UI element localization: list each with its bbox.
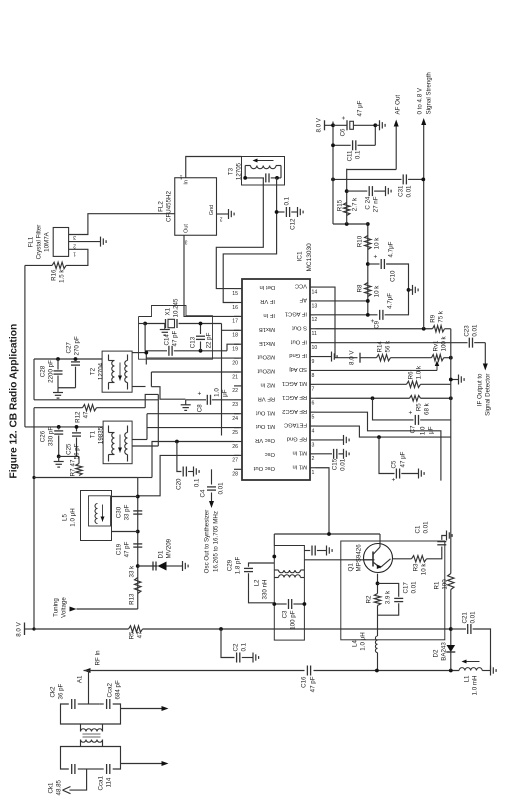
svg-text:M2Out: M2Out xyxy=(257,353,275,359)
pin 13 AF xyxy=(310,299,316,301)
transistor Q1 MPS9426 xyxy=(363,543,392,572)
ground C12 xyxy=(296,207,298,217)
resistor R5 in rail xyxy=(128,625,142,631)
pin 6 RF AGC1 xyxy=(310,397,316,399)
svg-text:33 pF: 33 pF xyxy=(123,504,130,520)
node C13 right xyxy=(198,321,202,325)
svg-text:Signal Detector: Signal Detector xyxy=(484,373,491,415)
capacitor C17 0.01 xyxy=(377,603,398,615)
wire T3 to pin15 xyxy=(216,177,263,288)
wire pin26 net xyxy=(152,441,234,477)
wire Q1 emitter to R3 xyxy=(393,557,412,559)
svg-text:C7: C7 xyxy=(409,424,416,432)
svg-text:10 k: 10 k xyxy=(373,284,380,297)
capacitor C5 47 uF xyxy=(395,468,397,478)
capacitor C27 270 pF line xyxy=(58,386,76,388)
wire rail B right leg down to C28 node xyxy=(34,358,102,360)
svg-text:8.0 V: 8.0 V xyxy=(348,349,355,364)
svg-text:M2Out: M2Out xyxy=(257,367,275,373)
wire osc out line xyxy=(210,469,212,484)
wire pin10 to C23 xyxy=(315,341,467,343)
terminal antenna xyxy=(69,769,86,790)
svg-text:R14: R14 xyxy=(376,340,383,352)
capacitor Cca2 684 pF xyxy=(105,699,107,709)
T1 windings xyxy=(111,432,114,454)
node pin26/C20 xyxy=(175,439,179,443)
wire rail B left leg down x=401.7 xyxy=(34,398,158,400)
pin 19 Mix1E xyxy=(234,343,242,345)
svg-text:C16: C16 xyxy=(300,675,307,687)
svg-text:L4: L4 xyxy=(351,639,358,646)
node C7 rail xyxy=(448,396,452,400)
transformer T3 12705 box xyxy=(241,156,284,185)
node pin12 ladder xyxy=(365,312,369,316)
svg-text:D2: D2 xyxy=(432,648,439,656)
capacitor C11 0.1 xyxy=(333,144,351,146)
svg-text:16.265 to 16.705 MHz: 16.265 to 16.705 MHz xyxy=(212,511,219,572)
svg-text:4.7μF: 4.7μF xyxy=(386,292,393,308)
svg-text:D1: D1 xyxy=(157,550,164,558)
svg-text:M1 In: M1 In xyxy=(292,463,307,469)
svg-text:In: In xyxy=(183,180,189,185)
resistor R10 10 k xyxy=(364,235,370,249)
svg-text:AF Out: AF Out xyxy=(394,94,401,114)
svg-text:47 pF: 47 pF xyxy=(123,541,130,557)
ground C28 xyxy=(57,387,59,392)
capacitor C25 56 pF line xyxy=(58,455,78,457)
arrow IF output to signal detector xyxy=(484,342,486,365)
svg-text:L2: L2 xyxy=(253,578,260,585)
svg-text:C3: C3 xyxy=(281,609,288,617)
node ladder right xyxy=(365,222,369,226)
node RV1 rail xyxy=(448,355,452,359)
pin 20 M2Out xyxy=(234,357,242,359)
capacitor C1 0.01 xyxy=(437,543,446,545)
svg-text:27: 27 xyxy=(232,457,238,463)
svg-text:AF: AF xyxy=(299,296,307,302)
capacitor C10 4.7 uF xyxy=(367,263,379,265)
svg-text:27 nF: 27 nF xyxy=(372,196,379,212)
capacitor C28 2200 pF line xyxy=(56,357,60,361)
svg-text:16: 16 xyxy=(232,304,238,310)
capacitor C15 0.01 at pin2 xyxy=(315,452,332,454)
svg-text:4: 4 xyxy=(311,428,314,434)
ground bias rail xyxy=(450,378,458,380)
wire pin1 to oscillator tank xyxy=(315,467,329,533)
pin 22 M2 In xyxy=(234,384,242,386)
resistor R7 47 xyxy=(75,463,81,475)
svg-text:M1 In: M1 In xyxy=(292,449,307,455)
svg-text:48.85: 48.85 xyxy=(55,779,62,795)
ground pin3 xyxy=(315,438,343,440)
svg-text:R3: R3 xyxy=(412,562,419,570)
svg-text:μF: μF xyxy=(427,426,434,434)
svg-text:1.0 μH: 1.0 μH xyxy=(69,508,76,526)
pin 27 Osc xyxy=(234,454,242,456)
svg-text:3: 3 xyxy=(311,442,314,448)
svg-text:IF In: IF In xyxy=(263,312,275,318)
svg-text:T1: T1 xyxy=(89,430,96,438)
potentiometer RV1 100 k xyxy=(390,356,431,358)
resistor R6 1.0 k at pin7 xyxy=(315,383,406,385)
svg-text:C8: C8 xyxy=(196,403,203,411)
svg-text:22: 22 xyxy=(232,388,238,394)
resistor R3 10 k xyxy=(411,555,426,561)
svg-text:μF: μF xyxy=(221,389,228,397)
svg-text:18: 18 xyxy=(232,332,238,338)
pin 11 S Out xyxy=(310,327,316,329)
svg-text:VCC: VCC xyxy=(294,282,306,288)
ground C6 xyxy=(375,124,379,126)
capacitor C2 0.1 xyxy=(235,652,237,662)
svg-text:Out: Out xyxy=(183,223,189,232)
pin 3 RF Gnd xyxy=(310,438,316,440)
resistor R14 56 k xyxy=(376,354,390,360)
svg-text:C31: C31 xyxy=(397,184,404,196)
ground C26 xyxy=(57,456,59,461)
box Q1 RF stage xyxy=(340,541,444,640)
svg-text:22 pF: 22 pF xyxy=(205,332,212,348)
svg-text:2: 2 xyxy=(219,215,222,221)
svg-text:68 k: 68 k xyxy=(423,402,430,415)
svg-text:19: 19 xyxy=(232,346,238,352)
wire pin21 to T2 lead B xyxy=(132,385,145,387)
svg-text:47: 47 xyxy=(69,459,76,466)
svg-text:26: 26 xyxy=(232,443,238,449)
capacitor C7 1.0 uF xyxy=(372,398,413,420)
svg-text:M1 Out: M1 Out xyxy=(255,409,274,415)
svg-text:Mix1B: Mix1B xyxy=(258,325,274,331)
svg-text:2200 pF: 2200 pF xyxy=(47,359,54,382)
svg-text:C26: C26 xyxy=(39,430,46,442)
svg-text:+: + xyxy=(196,391,203,395)
svg-text:1.8 pF: 1.8 pF xyxy=(234,556,241,574)
node RF/L4 xyxy=(375,668,379,672)
svg-text:C28: C28 xyxy=(39,365,46,377)
svg-text:13: 13 xyxy=(311,303,317,309)
wire pin4 FETAGC to C5 xyxy=(315,426,450,437)
svg-text:L5: L5 xyxy=(61,513,68,520)
svg-text:RF In: RF In xyxy=(94,649,101,665)
antenna matching left section xyxy=(77,768,88,770)
svg-text:R8: R8 xyxy=(356,283,363,291)
svg-text:3.9 k: 3.9 k xyxy=(384,589,391,603)
svg-text:M1 AGC1: M1 AGC1 xyxy=(281,379,306,385)
svg-text:Osc Out: Osc Out xyxy=(253,464,275,470)
wire Q1 base xyxy=(304,558,374,560)
node C10 junction xyxy=(365,262,369,266)
svg-text:A1: A1 xyxy=(76,674,83,682)
svg-text:Osc: Osc xyxy=(264,451,274,457)
L1 tuning arrow xyxy=(462,660,479,662)
svg-text:Ck2: Ck2 xyxy=(49,685,56,697)
svg-text:CFU455H2: CFU455H2 xyxy=(165,190,172,222)
svg-text:12: 12 xyxy=(311,317,317,323)
node C31/S line xyxy=(421,177,425,181)
svg-text:10 k: 10 k xyxy=(373,236,380,249)
svg-text:+: + xyxy=(340,116,347,120)
svg-text:C13: C13 xyxy=(189,336,196,348)
svg-text:Osc Out to Synthesizer: Osc Out to Synthesizer xyxy=(203,509,210,573)
svg-text:12705: 12705 xyxy=(235,162,242,180)
svg-text:20: 20 xyxy=(232,360,238,366)
resistor R15 2.7 k xyxy=(343,202,349,215)
antenna matching right section xyxy=(77,703,88,705)
svg-text:RF Gnd: RF Gnd xyxy=(286,435,306,441)
arrow osc out xyxy=(209,501,214,508)
svg-text:0.01: 0.01 xyxy=(339,458,346,471)
wire pin12 down xyxy=(315,313,377,315)
svg-text:M2 In: M2 In xyxy=(260,381,275,387)
svg-text:C23: C23 xyxy=(463,324,470,336)
L5 tuning arrow xyxy=(101,504,103,521)
node RF/D2 rail xyxy=(448,668,452,672)
svg-text:Voltage: Voltage xyxy=(60,596,67,617)
ground C2 xyxy=(252,652,254,662)
svg-text:C 24: C 24 xyxy=(364,195,371,209)
node R2/C17 right xyxy=(375,581,379,585)
pin 8 SD Adj xyxy=(310,369,316,371)
ground C15 xyxy=(342,448,344,458)
capacitor C23 0.01 xyxy=(468,337,470,347)
capacitor C30 33 pF in tuning line xyxy=(133,513,142,515)
svg-text:R5: R5 xyxy=(128,630,135,638)
svg-text:330 nH: 330 nH xyxy=(261,579,268,599)
svg-text:Det In: Det In xyxy=(259,284,274,290)
resistor R1 100 xyxy=(447,573,453,589)
wire L5 to tuning line right xyxy=(111,495,137,497)
wire VCC pin14 to 8V xyxy=(315,287,357,358)
svg-text:1.0 k: 1.0 k xyxy=(415,365,422,379)
svg-text:12704: 12704 xyxy=(97,362,104,380)
pin 16 IF VR xyxy=(234,301,242,303)
svg-text:C14: C14 xyxy=(163,333,170,345)
svg-text:+: + xyxy=(390,477,397,481)
capacitor C20 0.1 xyxy=(176,441,181,471)
svg-text:R2: R2 xyxy=(365,594,372,602)
node S line tap xyxy=(421,326,425,330)
wire C5 branch xyxy=(379,437,395,473)
capacitor L2 bypass xyxy=(304,549,310,551)
pin 2 M1 In xyxy=(310,452,316,454)
resistor R2 3.9 k xyxy=(374,593,380,605)
svg-text:RF AGC1: RF AGC1 xyxy=(282,393,307,399)
svg-text:25: 25 xyxy=(232,429,238,435)
svg-text:1.0 mH: 1.0 mH xyxy=(471,675,478,695)
svg-text:0.01: 0.01 xyxy=(217,481,224,494)
ground C9/C10 xyxy=(411,284,413,294)
resistor R12 47 xyxy=(34,406,83,408)
wire T3 to pin16 xyxy=(223,177,276,302)
svg-text:X1: X1 xyxy=(164,307,171,315)
capacitor Ck1 48.85 xyxy=(70,764,72,774)
capacitor C12 0.1 xyxy=(276,211,284,213)
svg-text:C1: C1 xyxy=(414,525,421,533)
svg-text:M1 Out: M1 Out xyxy=(255,423,274,429)
svg-text:19835: 19835 xyxy=(97,426,104,444)
svg-text:MV209: MV209 xyxy=(165,538,172,558)
transformer T2 12704 box xyxy=(102,351,132,392)
svg-text:C30: C30 xyxy=(115,506,122,518)
svg-text:1.0 μH: 1.0 μH xyxy=(359,632,366,650)
inductor L4 1.0 uH xyxy=(376,652,378,670)
wire 8V rail A horizontal xyxy=(33,407,35,628)
pin 18 Mix1B xyxy=(234,329,242,331)
svg-text:47: 47 xyxy=(82,410,89,417)
svg-text:T2: T2 xyxy=(89,367,96,375)
pin 26 Osc VR xyxy=(234,440,242,442)
svg-text:+: + xyxy=(407,410,414,414)
node 8V rail corner xyxy=(32,627,35,630)
node FETAGC branch xyxy=(377,435,381,439)
L2 windings xyxy=(278,574,300,577)
svg-text:1: 1 xyxy=(311,470,314,476)
svg-text:10.245: 10.245 xyxy=(172,298,179,317)
wire to pin 19 xyxy=(227,344,240,351)
svg-text:0.1: 0.1 xyxy=(240,642,247,651)
svg-text:C19: C19 xyxy=(115,543,122,555)
svg-text:0.01: 0.01 xyxy=(469,610,476,623)
svg-text:R15: R15 xyxy=(336,199,343,211)
svg-text:33 k: 33 k xyxy=(128,564,135,577)
transformer T1 19835 box xyxy=(103,421,132,464)
svg-text:2.7 k: 2.7 k xyxy=(351,196,358,210)
resistor R8 10 k xyxy=(364,282,370,296)
wire rail C left leg down to T1 feed node xyxy=(24,425,102,427)
ground C5 xyxy=(417,468,419,478)
wire ladder to AF line xyxy=(333,223,368,225)
pin 1 M1 In xyxy=(310,466,316,468)
resistor R5 68 k xyxy=(409,395,420,401)
pin 25 M1 Out xyxy=(234,426,242,428)
pin 9 IF Gnd xyxy=(310,355,316,357)
capacitor C4 0.01 xyxy=(207,489,216,491)
svg-text:100 pF: 100 pF xyxy=(289,610,296,629)
wire pin8 SD Adj to RV1 wiper xyxy=(315,369,437,371)
svg-text:0.01: 0.01 xyxy=(422,520,429,533)
pin 7 M1 AGC1 xyxy=(310,383,316,385)
pin 17 IF In xyxy=(234,315,242,317)
svg-text:100: 100 xyxy=(441,578,448,589)
capacitor C31 0.01 xyxy=(402,174,404,184)
wire AF line y=346.2 xyxy=(345,168,347,223)
node T2 bottom xyxy=(144,350,148,354)
wire 8V main vertical rail x=172.5 xyxy=(34,628,129,630)
wire pin18 to X1 xyxy=(220,323,222,435)
T3 coil xyxy=(250,165,276,168)
IC U1 MC13030 body xyxy=(242,279,310,480)
ground C24 xyxy=(384,186,386,196)
pin 28 Osc Out xyxy=(234,468,242,470)
inductor L5 coil xyxy=(95,503,98,523)
svg-text:47: 47 xyxy=(136,630,143,637)
wire pin20 up to T2 xyxy=(146,357,239,359)
diode D2 BA243 xyxy=(446,651,455,653)
svg-text:IF Output to: IF Output to xyxy=(476,372,483,405)
svg-text:R7: R7 xyxy=(69,468,76,476)
svg-text:T3: T3 xyxy=(227,167,234,175)
T1 tuning arrow xyxy=(119,434,121,452)
svg-text:MC13030: MC13030 xyxy=(306,242,313,271)
svg-text:C21: C21 xyxy=(461,611,468,623)
wire Q1 collector to mixer line xyxy=(379,534,381,544)
svg-text:Figure 12. CB Radio Applicatio: Figure 12. CB Radio Application xyxy=(8,323,19,478)
capacitor C24 27 nF xyxy=(346,190,367,192)
svg-text:684 pF: 684 pF xyxy=(114,680,121,699)
capacitor C19 47 pF in tuning line xyxy=(133,546,142,548)
capacitor C9 4.7 uF xyxy=(378,309,380,319)
svg-text:10 k: 10 k xyxy=(420,562,427,575)
svg-text:IC1: IC1 xyxy=(296,251,303,262)
wire signal strength line xyxy=(422,123,424,328)
filter FL2 CFU455H2 xyxy=(174,177,216,235)
svg-text:8.0 V: 8.0 V xyxy=(315,117,322,132)
crystal X1 10.245 xyxy=(176,319,178,328)
transformer antenna coupling xyxy=(80,739,102,742)
svg-text:47 pF: 47 pF xyxy=(171,330,178,346)
wire antenna feed xyxy=(87,670,89,704)
pin 21 M2Out xyxy=(234,371,242,373)
svg-text:47 μF: 47 μF xyxy=(399,451,406,467)
svg-text:330 pF: 330 pF xyxy=(47,426,54,445)
svg-text:28: 28 xyxy=(232,471,238,477)
node rail/C21 xyxy=(448,627,452,631)
svg-text:C17: C17 xyxy=(402,581,409,593)
svg-text:14: 14 xyxy=(311,289,317,295)
svg-text:0.1: 0.1 xyxy=(283,196,290,205)
T3 tuning arrow xyxy=(253,159,273,161)
pin 23 RF VR xyxy=(234,398,242,400)
svg-text:0 to 4.8 V: 0 to 4.8 V xyxy=(416,87,423,114)
svg-text:C12: C12 xyxy=(289,217,296,229)
wire 8V AF rail xyxy=(332,121,334,224)
svg-text:8.0 V: 8.0 V xyxy=(15,621,22,636)
pin 5 RF AGC2 xyxy=(310,411,316,413)
resistor R13 33 k xyxy=(134,577,140,593)
node T1 8V feed xyxy=(56,425,60,429)
wire RF input vertical xyxy=(83,669,304,671)
inductor L2 330 nH box xyxy=(274,545,304,640)
svg-text:R9: R9 xyxy=(429,314,436,322)
svg-text:C2: C2 xyxy=(232,643,239,651)
svg-text:Rv1: Rv1 xyxy=(432,339,439,351)
pin 12 IF AGC1 xyxy=(310,313,316,315)
node C19/L5 junction xyxy=(135,529,139,533)
svg-text:24: 24 xyxy=(232,416,238,422)
svg-text:56 pF: 56 pF xyxy=(73,443,80,459)
svg-text:36 pF: 36 pF xyxy=(57,683,64,699)
capacitor C16 47 pF xyxy=(306,665,308,675)
wire C2 branch xyxy=(221,629,235,658)
svg-text:Q1: Q1 xyxy=(347,562,354,571)
capacitor C13 22 pF xyxy=(199,341,201,350)
arrow AF Out xyxy=(346,168,396,170)
wire T2 secondary bottom xyxy=(132,351,146,353)
svg-text:7: 7 xyxy=(311,386,314,392)
svg-text:MPS9426: MPS9426 xyxy=(355,543,362,571)
svg-text:C6: C6 xyxy=(339,127,346,135)
svg-text:C15: C15 xyxy=(331,458,338,470)
wire tank to pin1 coupling xyxy=(273,534,275,546)
svg-text:R13: R13 xyxy=(128,592,135,604)
L5 inner former xyxy=(88,495,110,525)
node C6 out xyxy=(373,123,377,127)
varactor D1 MV209 xyxy=(137,565,157,567)
svg-text:1.5 k: 1.5 k xyxy=(58,268,65,282)
pin 15 Det In xyxy=(234,287,242,289)
svg-text:5: 5 xyxy=(311,414,314,420)
svg-text:23: 23 xyxy=(232,402,238,408)
